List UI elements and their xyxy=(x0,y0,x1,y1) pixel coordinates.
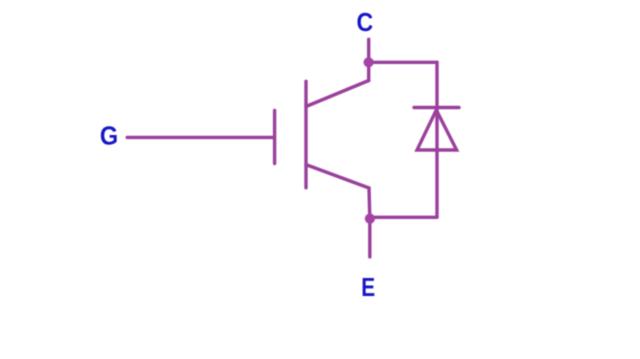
transistor Q1 body bar xyxy=(304,81,307,187)
node junction dot bottom (emitter node) xyxy=(365,214,375,224)
svg-text:E: E xyxy=(361,272,375,302)
wire bottom horizontal from diode branch xyxy=(370,216,437,219)
wire collector stub from C xyxy=(367,39,370,80)
transistor Q1 collector diagonal xyxy=(306,81,369,107)
wire gate lead from G xyxy=(127,136,274,139)
svg-text:C: C xyxy=(357,7,374,37)
svg-text:G: G xyxy=(100,120,118,150)
wire top horizontal to diode branch xyxy=(369,61,437,64)
transistor Q1 gate bar xyxy=(273,111,276,164)
diode D1 triangle xyxy=(417,110,457,150)
wire right branch vertical xyxy=(435,62,438,217)
transistor Q1 emitter diagonal xyxy=(306,165,369,188)
wire emitter vertical segment xyxy=(367,188,371,219)
node junction dot top (collector node) xyxy=(364,57,374,67)
diode D1 cathode bar xyxy=(414,106,459,109)
wire emitter stub to E xyxy=(368,219,371,257)
